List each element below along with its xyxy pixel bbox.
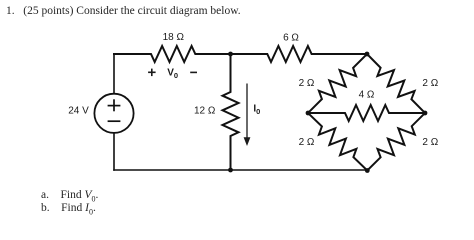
svg-text:12 Ω: 12 Ω bbox=[194, 106, 216, 117]
wire left rail top (source to top-left corner) bbox=[113, 54, 115, 94]
resistor R7 2 ohm bridge bottom-right edge bbox=[367, 113, 425, 171]
svg-text:2 Ω: 2 Ω bbox=[299, 137, 315, 148]
current arrow I0 bbox=[244, 84, 251, 147]
svg-text:4 Ω: 4 Ω bbox=[359, 89, 375, 100]
resistor R3 12 ohm vertical middle branch bbox=[223, 54, 239, 170]
node bridge top vertex bbox=[365, 52, 370, 57]
svg-text:24 V: 24 V bbox=[68, 106, 89, 117]
resistor R6 2 ohm bridge bottom-left edge bbox=[308, 113, 367, 171]
svg-text:2 Ω: 2 Ω bbox=[422, 137, 438, 148]
question a bbox=[41, 189, 98, 203]
node bridge bottom vertex bbox=[365, 168, 370, 173]
node bridge left vertex bbox=[306, 111, 311, 116]
svg-text:18 Ω: 18 Ω bbox=[163, 32, 185, 43]
label minus polarity V0 bbox=[190, 71, 197, 73]
svg-text:6 Ω: 6 Ω bbox=[283, 33, 299, 44]
label plus polarity V0 bbox=[148, 69, 156, 77]
resistor R8 4 ohm bridge middle horizontal bbox=[308, 105, 425, 121]
resistor R4 2 ohm bridge top-left edge bbox=[308, 54, 367, 113]
resistor R2 6 ohm with top wire bbox=[231, 46, 368, 62]
node junction dot bottom (12 ohm bottom) bbox=[228, 168, 233, 173]
node junction dot top (12 ohm top) bbox=[228, 52, 233, 57]
svg-text:2 Ω: 2 Ω bbox=[422, 78, 438, 89]
voltage source V1 24V circle bbox=[94, 94, 133, 133]
question b bbox=[41, 202, 96, 216]
resistor R5 2 ohm bridge top-right edge bbox=[367, 54, 425, 113]
svg-text:V0: V0 bbox=[167, 68, 178, 80]
svg-text:I0: I0 bbox=[253, 104, 260, 117]
problem statement line bbox=[6, 5, 241, 17]
wire left rail bottom (source to bottom-left corner) bbox=[113, 133, 115, 170]
wire bottom rail bbox=[114, 169, 367, 171]
voltage source minus sign bbox=[108, 120, 121, 122]
svg-text:2 Ω: 2 Ω bbox=[299, 78, 315, 89]
voltage source plus sign bbox=[108, 99, 121, 121]
node bridge right vertex bbox=[423, 111, 428, 116]
resistor R1 18 ohm with top-left wire bbox=[114, 46, 231, 62]
